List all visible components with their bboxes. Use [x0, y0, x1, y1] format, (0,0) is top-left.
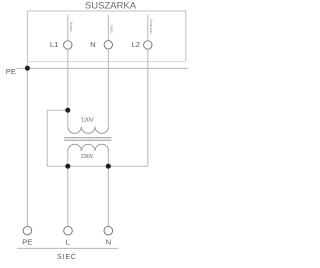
- svg-text:120V: 120V: [81, 117, 94, 123]
- svg-text:L2: L2: [131, 40, 140, 49]
- svg-text:czerwony: czerwony: [149, 19, 153, 34]
- svg-text:bialy: bialy: [110, 25, 114, 33]
- svg-text:L: L: [66, 237, 71, 246]
- svg-text:SIEĆ: SIEĆ: [57, 252, 77, 261]
- svg-text:czarny: czarny: [69, 21, 73, 31]
- svg-text:L1: L1: [50, 40, 59, 49]
- svg-text:SUSZARKA: SUSZARKA: [85, 0, 137, 11]
- svg-text:PE: PE: [22, 237, 32, 246]
- svg-text:PE: PE: [6, 67, 16, 76]
- svg-text:N: N: [90, 40, 96, 49]
- svg-text:N: N: [106, 237, 112, 246]
- svg-text:230V: 230V: [81, 154, 94, 160]
